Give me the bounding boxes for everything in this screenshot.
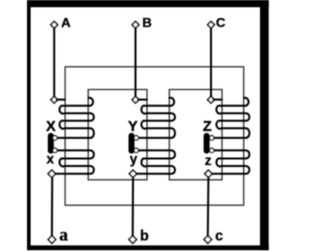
terminal a (diamond) bbox=[48, 236, 56, 244]
core window 1 bbox=[88, 90, 147, 180]
core window 2 bbox=[169, 90, 222, 180]
winding A-X (upper) bbox=[57, 98, 94, 138]
winding x-a (lower) bbox=[53, 150, 94, 173]
link bar Y-y bbox=[129, 133, 135, 154]
frame bottom bar bbox=[27, 245, 269, 250]
svg-text:Z: Z bbox=[203, 119, 212, 135]
frame top bar bbox=[27, 0, 269, 7]
link bar Z-z bbox=[204, 133, 210, 154]
svg-text:x: x bbox=[46, 151, 54, 166]
terminal Z (circle) bbox=[210, 136, 214, 140]
node y-b junction (diamond) bbox=[129, 170, 136, 177]
svg-text:B: B bbox=[142, 15, 152, 30]
wire C lead-in bbox=[210, 28, 212, 96]
winding y-b (lower) bbox=[135, 150, 176, 173]
terminal Y (circle) bbox=[134, 136, 138, 140]
svg-text:z: z bbox=[205, 153, 212, 168]
terminal z (circle) bbox=[210, 148, 214, 152]
terminal x (circle) bbox=[53, 148, 57, 152]
terminal b (diamond) bbox=[129, 236, 137, 244]
terminal y (circle) bbox=[134, 148, 138, 152]
wire b lead-out bbox=[132, 178, 134, 236]
winding z-c (lower) bbox=[210, 150, 250, 173]
wire stub C to core limb bbox=[213, 99, 223, 101]
node z-c junction (diamond) bbox=[205, 170, 212, 177]
svg-text:Y: Y bbox=[128, 119, 138, 135]
core outline (yokes and outer limbs) bbox=[65, 67, 244, 205]
terminal A (diamond) bbox=[51, 21, 58, 28]
node B-Y junction (diamond) bbox=[132, 96, 139, 103]
node C-Z junction (diamond) bbox=[208, 96, 215, 103]
terminal B (diamond) bbox=[132, 21, 139, 28]
winding B-Y (upper) bbox=[138, 98, 175, 138]
svg-text:y: y bbox=[130, 151, 138, 166]
svg-text:X: X bbox=[46, 119, 56, 135]
node x-a junction (diamond) bbox=[48, 170, 55, 177]
link bar X-x bbox=[48, 133, 54, 154]
terminal C (diamond) bbox=[208, 21, 215, 28]
wire B lead-in bbox=[135, 28, 137, 96]
wire A lead-in bbox=[53, 28, 55, 96]
terminal c (diamond) bbox=[204, 236, 212, 244]
wire c lead-out bbox=[207, 178, 210, 236]
frame right bar bbox=[260, 0, 269, 250]
terminal X (circle) bbox=[53, 136, 57, 140]
svg-text:a: a bbox=[59, 224, 68, 244]
wire stub B to core limb bbox=[137, 99, 148, 101]
frame left bar bbox=[27, 0, 31, 250]
svg-text:b: b bbox=[140, 228, 149, 244]
node A-X junction (diamond) bbox=[51, 96, 58, 103]
svg-text:C: C bbox=[216, 15, 226, 30]
wire stub A to core limb bbox=[56, 99, 66, 101]
wire a lead-out bbox=[51, 178, 53, 236]
svg-text:c: c bbox=[215, 228, 223, 244]
svg-text:A: A bbox=[61, 15, 71, 30]
winding C-Z (upper) bbox=[214, 98, 250, 138]
